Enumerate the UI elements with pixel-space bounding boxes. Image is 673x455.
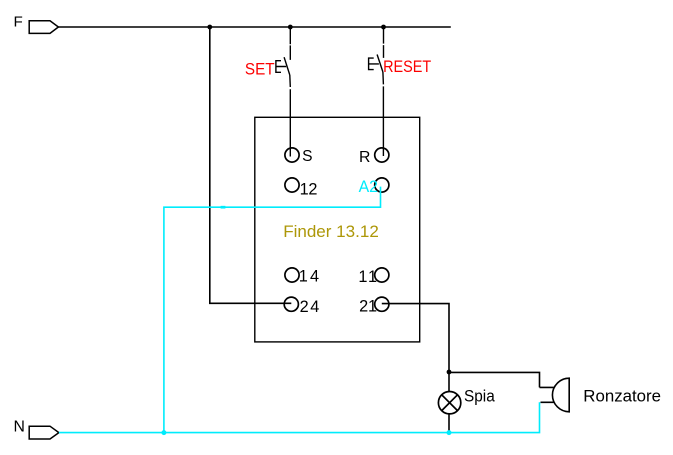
svg-text:SET: SET <box>245 61 275 79</box>
terminal flag N <box>29 426 59 439</box>
svg-text:F: F <box>14 13 23 30</box>
wire RESET branch upper <box>383 27 385 58</box>
pin A2 circle <box>375 178 389 192</box>
junction node G (neutral to lamp, cyan) <box>447 430 452 435</box>
wire junction D down to lamp <box>448 372 450 391</box>
svg-text:21: 21 <box>359 298 377 316</box>
svg-text:R: R <box>359 149 370 166</box>
svg-text:Finder 13.12: Finder 13.12 <box>283 222 379 241</box>
wire neutral bottom rail (cyan) <box>59 402 540 432</box>
wire junction D to buzzer <box>449 372 540 387</box>
junction node A (rail to 24-branch) <box>207 25 212 30</box>
svg-text:Ronzatore: Ronzatore <box>583 388 661 406</box>
junction node B (rail to SET branch) <box>288 25 293 30</box>
wire RESET branch lower to pin R <box>382 72 385 156</box>
svg-text:S: S <box>302 148 312 165</box>
wire SET branch lower to pin S <box>289 75 292 157</box>
wire SET branch upper <box>289 27 291 60</box>
svg-text:24: 24 <box>300 298 320 316</box>
lamp H1 Spia <box>438 392 460 414</box>
junction node E (neutral to A2 branch, cyan) <box>161 430 166 435</box>
junction node D (lamp / buzzer split) <box>447 370 452 375</box>
pin 11 circle <box>375 268 389 282</box>
pushbutton SET <box>276 57 290 75</box>
svg-text:Spia: Spia <box>464 388 496 406</box>
svg-text:11: 11 <box>358 268 377 286</box>
pin 14 circle <box>285 268 299 282</box>
terminal flag F <box>29 21 58 34</box>
pin 24 circle <box>284 297 298 311</box>
junction node C (rail to RESET branch) <box>381 25 386 30</box>
pin R circle <box>375 148 389 162</box>
relay module U1 Finder 13.12 outline <box>255 117 420 342</box>
wire lamp bottom to neutral <box>448 414 450 433</box>
wire left branch to pin 24 <box>210 27 291 303</box>
pin 12 circle <box>285 178 299 192</box>
svg-text:14: 14 <box>299 268 319 286</box>
pin S circle <box>285 148 299 162</box>
wire pin 21 to lamp junction <box>382 304 449 372</box>
svg-text:N: N <box>14 419 25 436</box>
svg-text:A2: A2 <box>359 177 378 196</box>
svg-text:12: 12 <box>300 181 318 199</box>
pin 21 circle <box>375 297 389 311</box>
svg-text:RESET: RESET <box>383 58 431 76</box>
wire neutral branch to pin A2 (cyan) <box>164 187 381 433</box>
pushbutton RESET <box>369 55 383 73</box>
wire phase top rail <box>58 26 450 28</box>
wire overlap blip on A2 branch (cyan) <box>221 206 226 209</box>
buzzer B1 Ronzatore <box>540 378 570 412</box>
